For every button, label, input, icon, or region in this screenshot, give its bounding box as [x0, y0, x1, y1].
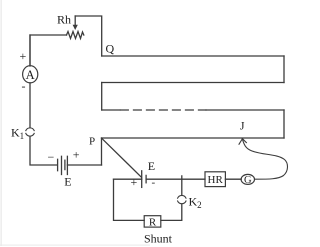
svg-text:+: +: [131, 175, 138, 189]
HR box: [205, 172, 225, 187]
slide wire row2: [102, 82, 284, 84]
slide wire row4: [102, 137, 285, 139]
wire jockey pigtail to G: [242, 139, 287, 179]
svg-text:E: E: [64, 175, 71, 189]
ammeter A: [23, 66, 38, 83]
resistor Rh: [67, 32, 84, 39]
svg-text:+: +: [73, 148, 80, 162]
key K1: [26, 128, 34, 136]
wire R box to shunt loop left: [114, 179, 145, 220]
wire battery E1 to P riser: [67, 164, 101, 166]
wire battery E2 to HR box: [146, 178, 205, 180]
slide wire row3 solid left: [102, 109, 120, 111]
wire right connector rows 1-2: [283, 56, 285, 83]
page edge left: [1, 0, 2, 246]
wire HR to G: [225, 178, 241, 180]
svg-text:P: P: [89, 135, 95, 147]
wire diagonal P to standard cell: [102, 138, 142, 177]
svg-text:E: E: [148, 159, 155, 173]
galvanometer G: [241, 174, 254, 184]
svg-text:Q: Q: [106, 42, 115, 56]
page edge bottom: [0, 245, 150, 246]
battery E2 plates: [142, 171, 146, 188]
wire right connector rows 3-4: [283, 110, 285, 138]
svg-text:R: R: [149, 216, 157, 228]
svg-text:+: +: [20, 49, 27, 63]
svg-text:Shunt: Shunt: [144, 232, 173, 246]
svg-text:−: −: [48, 150, 55, 164]
slide wire row1: [102, 55, 284, 57]
wire left connector rows 2-3: [101, 83, 103, 111]
resistor box R: [144, 216, 161, 227]
svg-text:A: A: [26, 68, 35, 82]
wire K2 branch upper: [181, 179, 183, 195]
wire wiper to Q corner: [75, 16, 102, 56]
svg-text:HR: HR: [208, 174, 224, 186]
svg-text:-: -: [152, 177, 156, 189]
wire top-left horizontal to Rh: [30, 35, 67, 66]
wire left column ammeter to rheostat: [29, 35, 31, 66]
svg-text:-: -: [22, 79, 26, 93]
wire shunt loop left to battery E2: [114, 178, 142, 180]
jockey arrowhead at J: [239, 139, 246, 145]
wire P down to battery loop: [101, 138, 103, 165]
rheostat wiper arrow: [73, 16, 78, 30]
slide wire row3 solid right: [206, 109, 284, 111]
svg-text:Rh: Rh: [57, 13, 71, 27]
junction tick K2 branch: [181, 176, 183, 179]
wire ammeter to key K1: [29, 83, 31, 128]
battery E1 plates: [58, 156, 68, 174]
slide wire row3 dashed middle: [121, 109, 207, 111]
svg-text:J: J: [240, 121, 245, 133]
wire K2 branch lower: [161, 204, 182, 220]
key K2: [178, 195, 186, 203]
wire key K1 to battery E: [30, 137, 57, 165]
svg-text:G: G: [244, 175, 252, 186]
